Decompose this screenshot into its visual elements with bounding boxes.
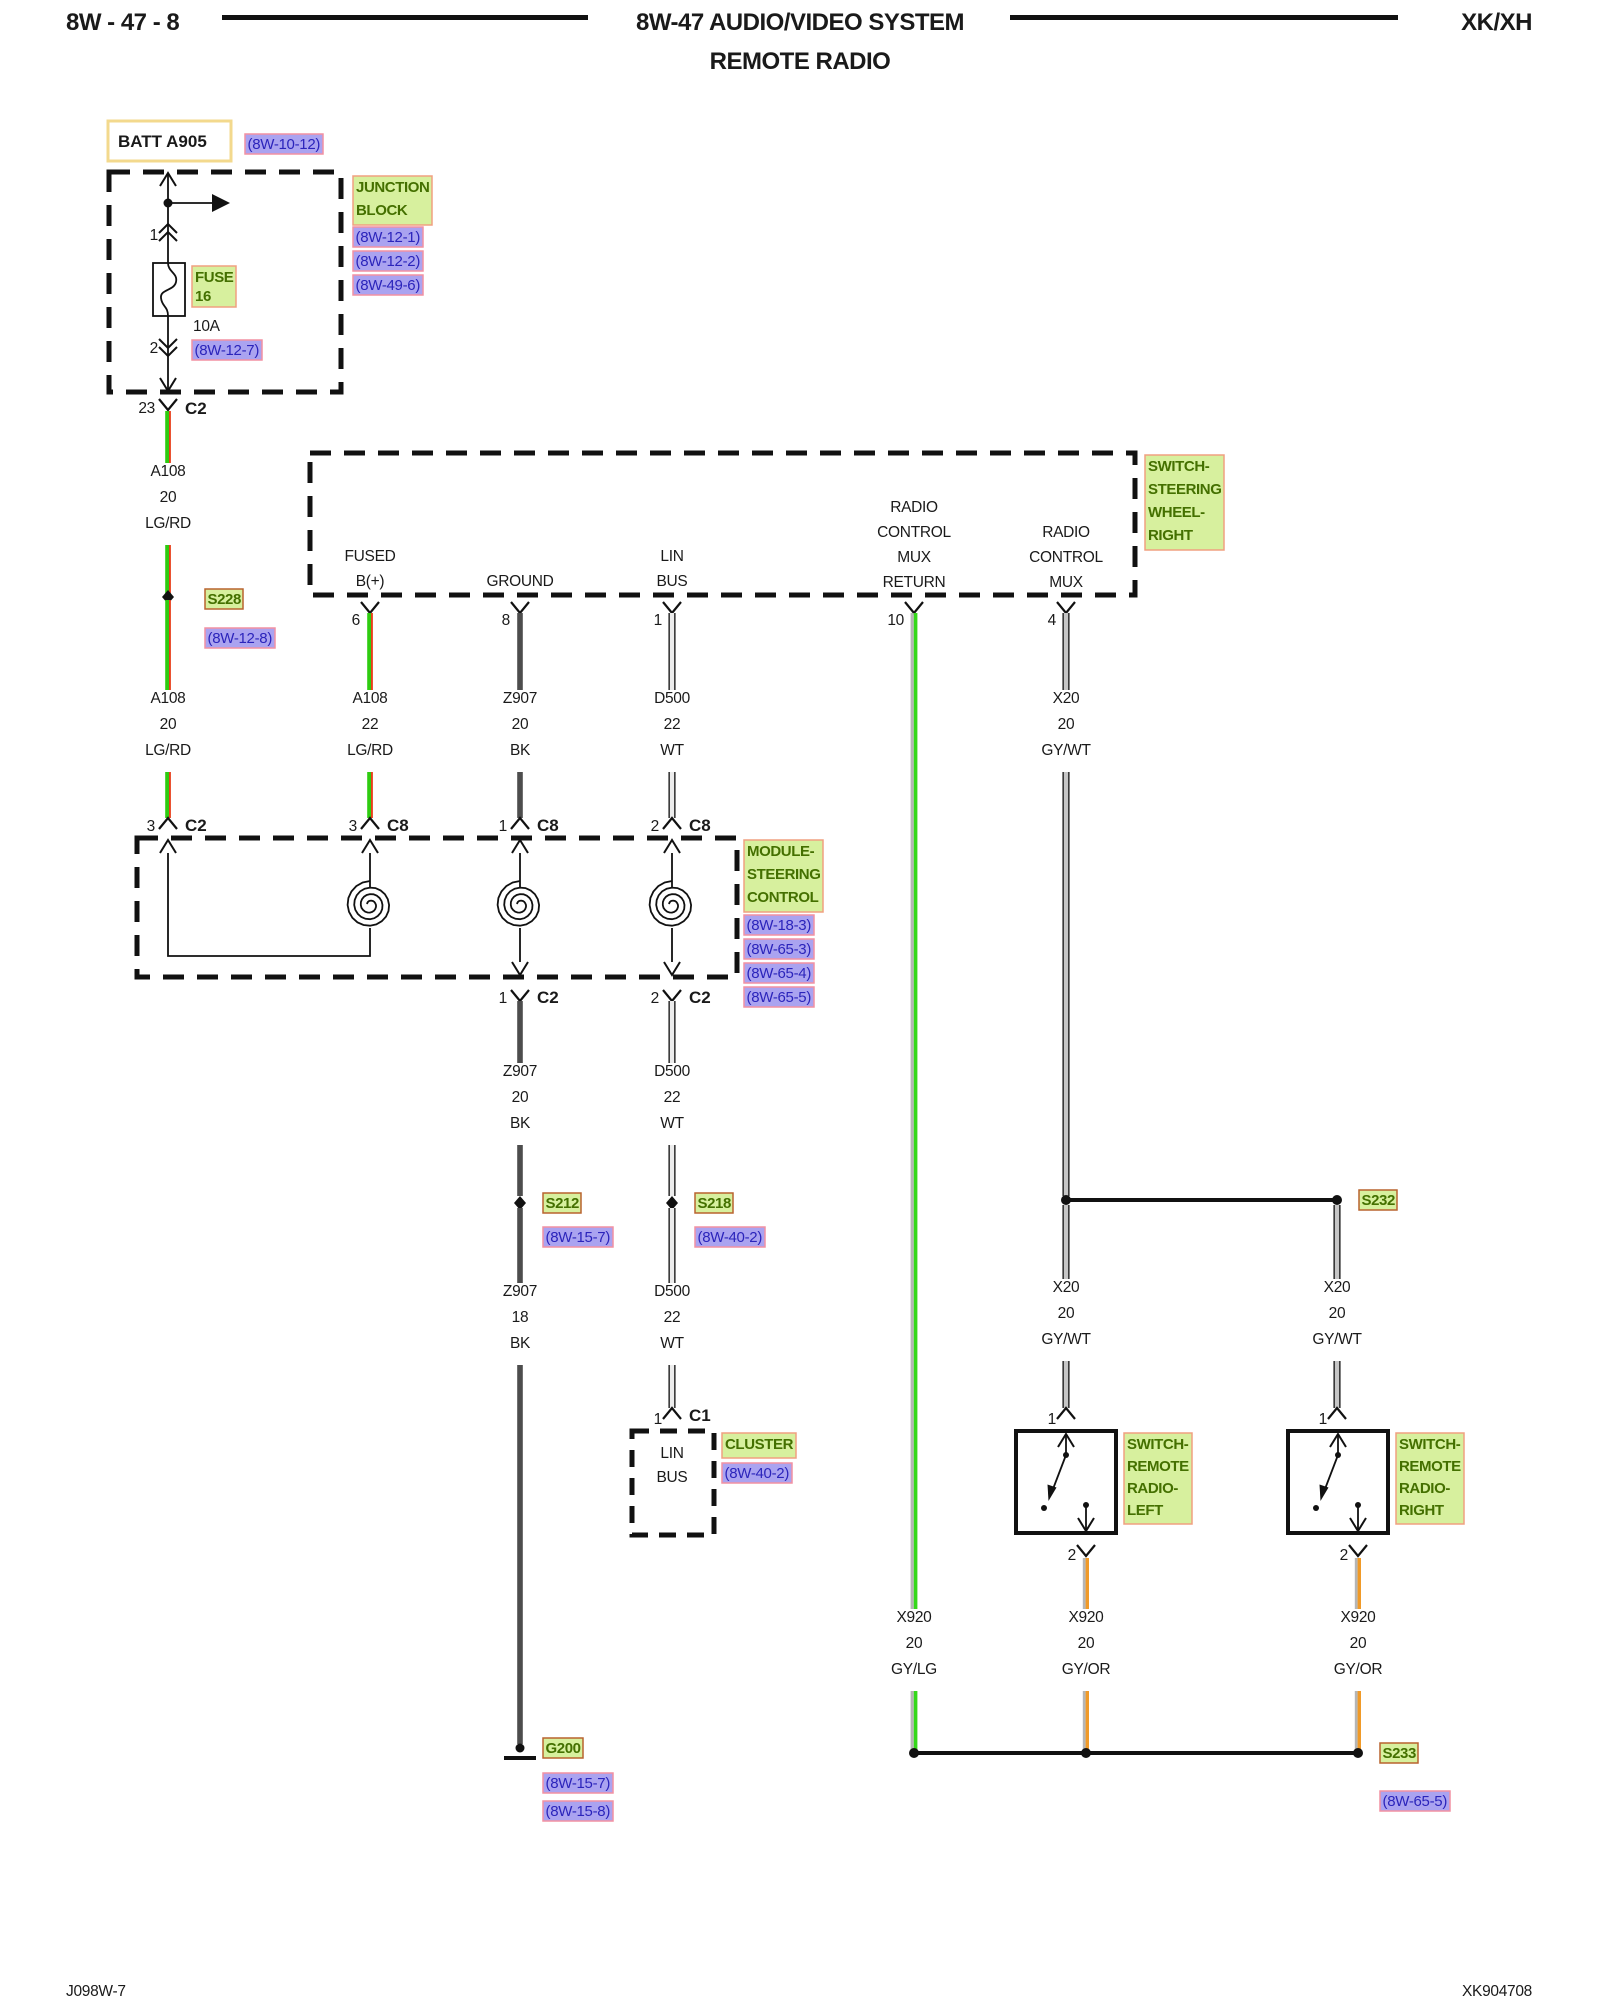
- svg-text:WHEEL-: WHEEL-: [1148, 504, 1205, 521]
- fuse label FUSE 16: [192, 266, 236, 307]
- svg-text:C8: C8: [387, 816, 409, 835]
- svg-text:2: 2: [150, 340, 158, 357]
- switch-steering wheel-right dashed box: [310, 453, 1135, 595]
- svg-text:1: 1: [150, 227, 158, 244]
- ref label (8W-65-5) at S233: [1380, 1791, 1450, 1811]
- svg-text:S233: S233: [1383, 1745, 1416, 1762]
- wire D500 22 WT upper: [668, 613, 675, 818]
- svg-text:(8W-12-1): (8W-12-1): [356, 229, 421, 246]
- svg-text:22: 22: [362, 716, 379, 733]
- wire label D500 22 WT (upper): [648, 690, 695, 772]
- svg-text:GROUND: GROUND: [486, 573, 553, 590]
- svg-text:CONTROL: CONTROL: [1029, 549, 1103, 566]
- splice label S232: [1359, 1190, 1397, 1210]
- splice S233 junction line: [909, 1748, 1363, 1758]
- ref label (8W-12-7): [192, 340, 262, 360]
- wire A108 20 LG/RD upper segment: [165, 411, 171, 594]
- svg-text:FUSE: FUSE: [195, 269, 234, 286]
- svg-text:Z907: Z907: [503, 1283, 537, 1300]
- svg-text:G200: G200: [546, 1740, 581, 1757]
- svg-text:RADIO: RADIO: [1042, 524, 1090, 541]
- svg-text:GY/LG: GY/LG: [891, 1661, 937, 1678]
- svg-text:X20: X20: [1324, 1279, 1351, 1296]
- svg-text:C8: C8: [689, 816, 711, 835]
- svg-text:CLUSTER: CLUSTER: [725, 1436, 794, 1453]
- wire out of junction block with arrow: [160, 376, 176, 391]
- wire label Z907 20 BK (lower): [497, 1063, 542, 1145]
- splice label S233: [1380, 1743, 1418, 1763]
- svg-text:8W - 47 - 8: 8W - 47 - 8: [66, 9, 179, 36]
- svg-text:S232: S232: [1362, 1192, 1395, 1209]
- svg-text:Z907: Z907: [503, 690, 537, 707]
- svg-text:20: 20: [1350, 1635, 1367, 1652]
- svg-text:REMOTE: REMOTE: [1399, 1458, 1461, 1475]
- svg-text:1: 1: [499, 990, 507, 1007]
- svg-text:BATT A905: BATT A905: [118, 132, 207, 151]
- connector C8 pin 2: [651, 816, 711, 835]
- svg-text:2: 2: [1068, 1547, 1076, 1564]
- wire label X20 20 GY/WT (left branch): [1036, 1279, 1097, 1361]
- svg-text:SWITCH-: SWITCH-: [1127, 1436, 1189, 1453]
- svg-text:SWITCH-: SWITCH-: [1148, 458, 1210, 475]
- svg-text:16: 16: [195, 288, 211, 305]
- wire label X920 20 GY/OR (left): [1056, 1609, 1116, 1691]
- connector pin 1 (junction block internal): [150, 224, 177, 244]
- svg-text:10A: 10A: [193, 318, 221, 335]
- svg-text:XK/XH: XK/XH: [1461, 9, 1532, 36]
- ref label (8W-15-8) at G200: [543, 1801, 613, 1821]
- svg-text:X920: X920: [897, 1609, 933, 1626]
- connector pin 6: [352, 602, 379, 629]
- cluster dashed box: [632, 1431, 714, 1535]
- svg-text:SWITCH-: SWITCH-: [1399, 1436, 1461, 1453]
- svg-text:D500: D500: [654, 1283, 691, 1300]
- svg-text:22: 22: [664, 1309, 681, 1326]
- node splice dot in junction block: [164, 199, 173, 208]
- ref label (8W-65-3): [744, 939, 814, 959]
- svg-text:10: 10: [887, 612, 904, 629]
- svg-text:(8W-40-2): (8W-40-2): [698, 1229, 763, 1246]
- svg-text:B(+): B(+): [356, 573, 385, 590]
- svg-text:(8W-12-8): (8W-12-8): [208, 630, 273, 647]
- svg-text:1: 1: [654, 1411, 662, 1428]
- pin name RADIO CONTROL MUX RETURN: [877, 499, 951, 591]
- svg-text:X920: X920: [1069, 1609, 1105, 1626]
- svg-text:8: 8: [502, 612, 510, 629]
- svg-text:3: 3: [349, 818, 357, 835]
- switch-remote radio-right internal symbol: [1313, 1434, 1366, 1531]
- svg-text:C2: C2: [185, 816, 207, 835]
- splice S228: [162, 590, 174, 604]
- svg-text:REMOTE: REMOTE: [1127, 1458, 1189, 1475]
- svg-text:RETURN: RETURN: [883, 574, 946, 591]
- wire label Z907 18 BK: [497, 1283, 542, 1365]
- wire A108 22 LG/RD: [367, 613, 373, 818]
- ref label (8W-18-3): [744, 915, 814, 935]
- switch-remote radio-right box: [1288, 1431, 1388, 1533]
- svg-text:(8W-15-7): (8W-15-7): [546, 1229, 611, 1246]
- svg-text:LG/RD: LG/RD: [145, 515, 191, 532]
- svg-text:X920: X920: [1341, 1609, 1377, 1626]
- svg-text:FUSED: FUSED: [344, 548, 395, 565]
- svg-text:STEERING: STEERING: [747, 866, 820, 883]
- svg-text:BUS: BUS: [657, 1469, 688, 1486]
- svg-text:A108: A108: [151, 690, 186, 707]
- wire label D500 22 WT (mid): [648, 1063, 695, 1145]
- svg-text:RADIO-: RADIO-: [1127, 1480, 1178, 1497]
- svg-text:(8W-15-7): (8W-15-7): [546, 1775, 611, 1792]
- svg-text:(8W-12-7): (8W-12-7): [195, 342, 260, 359]
- svg-text:LEFT: LEFT: [1127, 1502, 1163, 1519]
- wire X20 20 GY/WT (mux) upper: [1062, 613, 1069, 1196]
- svg-text:CONTROL: CONTROL: [747, 889, 819, 906]
- svg-text:1: 1: [1048, 1411, 1056, 1428]
- svg-text:C1: C1: [689, 1406, 711, 1425]
- svg-text:C8: C8: [537, 816, 559, 835]
- wire X920 20 GY/LG (mux return): [911, 613, 918, 1750]
- svg-text:LG/RD: LG/RD: [347, 742, 393, 759]
- ref label (8W-12-2): [353, 251, 423, 271]
- wire X20 20 GY/WT to left switch: [1062, 1205, 1069, 1408]
- svg-text:D500: D500: [654, 690, 691, 707]
- svg-text:MUX: MUX: [1049, 574, 1084, 591]
- connector pin 8: [502, 602, 529, 629]
- connector C1 pin 1 (cluster): [654, 1406, 711, 1428]
- wire A108 20 LG/RD lower segment: [165, 600, 171, 818]
- svg-text:RIGHT: RIGHT: [1399, 1502, 1444, 1519]
- svg-text:8W-47 AUDIO/VIDEO SYSTEM: 8W-47 AUDIO/VIDEO SYSTEM: [636, 9, 964, 36]
- svg-text:BLOCK: BLOCK: [356, 202, 408, 219]
- svg-text:C2: C2: [537, 988, 559, 1007]
- wire label A108 22 LG/RD: [341, 690, 398, 772]
- switch-steering wheel-right label: [1145, 455, 1224, 550]
- connector pin 1 (LIN BUS): [654, 602, 681, 629]
- svg-text:GY/OR: GY/OR: [1062, 1661, 1111, 1678]
- module-steering control dashed box: [137, 838, 737, 977]
- svg-text:CONTROL: CONTROL: [877, 524, 951, 541]
- wire X920 20 GY/OR (left): [1083, 1558, 1089, 1750]
- svg-text:20: 20: [906, 1635, 923, 1652]
- wire D500 22 WT lower: [668, 1001, 675, 1196]
- ground label G200: [543, 1738, 583, 1758]
- svg-text:20: 20: [512, 1089, 529, 1106]
- fuse F16 symbol: [153, 263, 185, 316]
- connector pin 2 (junction block internal): [150, 316, 177, 376]
- svg-text:BUS: BUS: [657, 573, 688, 590]
- connector C2 pin 23: [138, 399, 206, 418]
- ref label (8W-15-7) at G200: [543, 1773, 613, 1793]
- svg-text:S218: S218: [698, 1195, 731, 1212]
- svg-text:22: 22: [664, 716, 681, 733]
- connector pin 2 (left switch): [1068, 1545, 1095, 1564]
- wire label X20 20 GY/WT (upper): [1036, 690, 1097, 772]
- wire label X20 20 GY/WT (right branch): [1307, 1279, 1368, 1361]
- svg-text:LIN: LIN: [660, 1445, 683, 1462]
- module-steering control label: [744, 840, 823, 912]
- junction block label: [353, 176, 432, 225]
- svg-text:22: 22: [664, 1089, 681, 1106]
- pin name FUSED B(+): [344, 548, 395, 590]
- wire D500 22 WT to cluster: [668, 1208, 675, 1408]
- connector C2 pin 3 (module): [147, 816, 207, 835]
- splice label S218: [695, 1193, 733, 1213]
- pin name LIN BUS: [657, 548, 688, 590]
- svg-text:LIN: LIN: [660, 548, 683, 565]
- ref label (8W-65-5): [744, 987, 814, 1007]
- switch-remote radio-left label: [1124, 1433, 1192, 1524]
- splice S212: [514, 1196, 526, 1210]
- svg-text:(8W-15-8): (8W-15-8): [546, 1803, 611, 1820]
- svg-text:20: 20: [1058, 716, 1075, 733]
- wire X920 20 GY/OR (right): [1355, 1558, 1361, 1750]
- wire label D500 22 WT (lower): [648, 1283, 695, 1365]
- svg-text:6: 6: [352, 612, 360, 629]
- svg-text:C2: C2: [689, 988, 711, 1007]
- ref label (8W-12-1): [353, 227, 423, 247]
- wire Z907 20 BK upper: [517, 613, 523, 818]
- svg-text:20: 20: [512, 716, 529, 733]
- ref label (8W-12-8): [205, 628, 275, 648]
- svg-text:STEERING: STEERING: [1148, 481, 1221, 498]
- svg-text:A108: A108: [353, 690, 388, 707]
- svg-text:20: 20: [160, 489, 177, 506]
- svg-text:RIGHT: RIGHT: [1148, 527, 1193, 544]
- svg-text:RADIO: RADIO: [890, 499, 938, 516]
- junction block dashed box: [109, 172, 341, 392]
- svg-text:S228: S228: [208, 591, 241, 608]
- connector C8 pin 3: [349, 816, 409, 835]
- switch-remote radio-right label: [1396, 1433, 1464, 1524]
- svg-text:(8W-10-12): (8W-10-12): [248, 136, 321, 153]
- ref label (8W-40-2) at cluster: [722, 1463, 792, 1483]
- svg-text:Z907: Z907: [503, 1063, 537, 1080]
- svg-text:20: 20: [1078, 1635, 1095, 1652]
- svg-text:A108: A108: [151, 463, 186, 480]
- clockspring coil (lin bus): [650, 840, 692, 975]
- ground G200 symbol: [504, 1744, 536, 1761]
- connector pin 4: [1048, 602, 1075, 629]
- ref label (8W-40-2) at S218: [695, 1227, 765, 1247]
- ref label (8W-10-12): [245, 134, 323, 154]
- svg-text:XK904708: XK904708: [1462, 1983, 1532, 2000]
- clockspring coil (fused b+): [348, 840, 390, 926]
- connector pin 10: [887, 602, 923, 629]
- connector C2 pin 2 (below module): [651, 988, 711, 1007]
- ref label (8W-15-7) at S212: [543, 1227, 613, 1247]
- svg-text:D500: D500: [654, 1063, 691, 1080]
- connector pin 1 (right switch): [1319, 1408, 1346, 1428]
- battery feed node BATT A905: [108, 121, 231, 161]
- cluster pin name LIN BUS: [657, 1445, 688, 1486]
- wire X20 20 GY/WT to right switch: [1333, 1205, 1340, 1408]
- svg-text:2: 2: [651, 818, 659, 835]
- splice S218: [666, 1196, 678, 1210]
- svg-text:20: 20: [160, 716, 177, 733]
- svg-text:LG/RD: LG/RD: [145, 742, 191, 759]
- svg-text:(8W-65-5): (8W-65-5): [747, 989, 812, 1006]
- wire label X920 20 GY/OR (right): [1328, 1609, 1388, 1691]
- module internal wire from pin 3 C2: [160, 840, 370, 956]
- splice S232 junction: [1061, 1195, 1342, 1205]
- svg-text:(8W-65-3): (8W-65-3): [747, 941, 812, 958]
- svg-text:20: 20: [1058, 1305, 1075, 1322]
- svg-text:MUX: MUX: [897, 549, 932, 566]
- svg-text:2: 2: [651, 990, 659, 1007]
- switch-remote radio-left box: [1016, 1431, 1116, 1533]
- switch-remote radio-left internal symbol: [1041, 1434, 1094, 1531]
- ref label (8W-65-4): [744, 963, 814, 983]
- svg-text:1: 1: [499, 818, 507, 835]
- svg-text:23: 23: [138, 400, 155, 417]
- svg-text:20: 20: [1329, 1305, 1346, 1322]
- svg-text:18: 18: [512, 1309, 529, 1326]
- svg-text:X20: X20: [1053, 1279, 1080, 1296]
- cluster label: [722, 1433, 796, 1458]
- svg-text:J098W-7: J098W-7: [66, 1983, 126, 2000]
- svg-text:1: 1: [1319, 1411, 1327, 1428]
- pin name RADIO CONTROL MUX: [1029, 524, 1103, 591]
- svg-text:GY/WT: GY/WT: [1041, 1331, 1091, 1348]
- svg-text:BK: BK: [510, 1115, 531, 1132]
- wire label Z907 20 BK (upper): [497, 690, 542, 772]
- svg-text:(8W-49-6): (8W-49-6): [356, 277, 421, 294]
- svg-text:REMOTE RADIO: REMOTE RADIO: [710, 48, 891, 75]
- connector C2 pin 1 (below module): [499, 988, 559, 1007]
- wire label A108 20 LG/RD (upper): [139, 463, 196, 545]
- svg-text:WT: WT: [660, 1115, 684, 1132]
- ref label (8W-49-6): [353, 275, 423, 295]
- wire label X920 20 GY/LG: [885, 1609, 942, 1691]
- connector pin 2 (right switch): [1340, 1545, 1367, 1564]
- svg-text:(8W-40-2): (8W-40-2): [725, 1465, 790, 1482]
- svg-text:(8W-18-3): (8W-18-3): [747, 917, 812, 934]
- feed arrow to other circuits: [168, 194, 230, 212]
- svg-text:BK: BK: [510, 742, 531, 759]
- svg-text:GY/OR: GY/OR: [1334, 1661, 1383, 1678]
- wire Z907 20 BK lower: [517, 1001, 523, 1196]
- svg-text:GY/WT: GY/WT: [1041, 742, 1091, 759]
- svg-text:RADIO-: RADIO-: [1399, 1480, 1450, 1497]
- connector pin 1 (left switch): [1048, 1408, 1075, 1428]
- svg-text:4: 4: [1048, 612, 1057, 629]
- svg-text:BK: BK: [510, 1335, 531, 1352]
- splice label S212: [543, 1193, 581, 1213]
- svg-text:C2: C2: [185, 399, 207, 418]
- wire Z907 18 BK to ground: [517, 1208, 523, 1744]
- svg-text:WT: WT: [660, 742, 684, 759]
- svg-text:GY/WT: GY/WT: [1312, 1331, 1362, 1348]
- svg-text:X20: X20: [1053, 690, 1080, 707]
- clockspring coil (ground): [498, 840, 539, 975]
- page header: [66, 9, 1532, 75]
- svg-text:1: 1: [654, 612, 662, 629]
- pin name GROUND: [486, 573, 553, 590]
- svg-text:2: 2: [1340, 1547, 1348, 1564]
- footer: [66, 1983, 1532, 2000]
- splice label S228: [205, 589, 243, 609]
- svg-text:(8W-65-5): (8W-65-5): [1383, 1793, 1448, 1810]
- svg-text:(8W-65-4): (8W-65-4): [747, 965, 812, 982]
- wire battery feed into junction block: [160, 173, 176, 263]
- svg-text:JUNCTION: JUNCTION: [356, 179, 429, 196]
- svg-text:3: 3: [147, 818, 155, 835]
- connector C8 pin 1: [499, 816, 559, 835]
- wire label A108 20 LG/RD (lower): [139, 690, 196, 772]
- svg-text:WT: WT: [660, 1335, 684, 1352]
- svg-text:(8W-12-2): (8W-12-2): [356, 253, 421, 270]
- svg-text:S212: S212: [546, 1195, 579, 1212]
- svg-text:MODULE-: MODULE-: [747, 843, 815, 860]
